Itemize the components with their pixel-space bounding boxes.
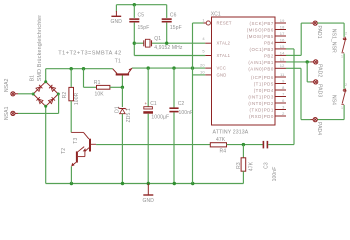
svg-text:XTAL2: XTAL2 — [217, 41, 231, 46]
svg-text:100R: 100R — [74, 92, 80, 105]
svg-text:(SCK)PB7: (SCK)PB7 — [250, 21, 274, 26]
svg-text:(TXD)PD1: (TXD)PD1 — [250, 108, 274, 113]
svg-text:PAD3: PAD3 — [317, 84, 323, 97]
svg-text:NSA1: NSA1 — [4, 106, 10, 120]
svg-text:PAD4: PAD4 — [316, 122, 322, 135]
svg-text:1: 1 — [341, 55, 343, 59]
svg-text:16: 16 — [280, 37, 285, 42]
svg-text:C1: C1 — [150, 101, 157, 107]
svg-text:100nF: 100nF — [272, 167, 278, 182]
svg-text:(MISO)PB6: (MISO)PB6 — [247, 28, 274, 33]
svg-text:(AIN1)PB1: (AIN1)PB1 — [248, 60, 274, 65]
svg-text:NS4: NS4 — [330, 95, 336, 105]
svg-text:10K: 10K — [95, 91, 105, 97]
svg-text:20: 20 — [200, 63, 205, 68]
svg-text:T1+T2+T3=SMBTA 42: T1+T2+T3=SMBTA 42 — [58, 50, 121, 56]
svg-text:C5: C5 — [138, 12, 145, 18]
svg-text:C2: C2 — [178, 101, 185, 107]
svg-text:14: 14 — [280, 50, 285, 55]
svg-text:PB2: PB2 — [264, 54, 274, 59]
svg-text:R3: R3 — [236, 162, 242, 169]
svg-text:T1: T1 — [115, 58, 121, 64]
svg-text:47K: 47K — [248, 161, 254, 171]
svg-text:ZD5.1: ZD5.1 — [126, 108, 132, 122]
svg-text:12: 12 — [280, 63, 285, 68]
svg-text:GND: GND — [217, 72, 227, 77]
svg-text:NS1_NSR: NS1_NSR — [330, 29, 336, 53]
svg-text:18: 18 — [280, 24, 285, 29]
svg-text:XTAL1: XTAL1 — [217, 53, 231, 58]
svg-text:1: 1 — [341, 106, 343, 110]
svg-text:15pF: 15pF — [138, 25, 150, 31]
svg-text:Q1: Q1 — [154, 36, 161, 42]
svg-text:ATTINY 2313A: ATTINY 2313A — [213, 129, 249, 135]
svg-text:1000µF: 1000µF — [151, 115, 169, 121]
svg-text:10: 10 — [200, 69, 205, 74]
svg-text:(MOSI)PB5: (MOSI)PB5 — [247, 34, 274, 39]
svg-text:(AIN0)PB0: (AIN0)PB0 — [248, 67, 274, 72]
svg-text:(OC1)PB3: (OC1)PB3 — [250, 47, 274, 52]
svg-text:SMD Brückengleichrichter: SMD Brückengleichrichter — [37, 15, 43, 82]
svg-text:T2: T2 — [61, 148, 67, 154]
svg-text:+: + — [145, 101, 148, 106]
svg-text:100nF: 100nF — [179, 110, 194, 116]
svg-text:19: 19 — [280, 18, 285, 23]
svg-text:R2: R2 — [62, 92, 68, 99]
svg-text:D1: D1 — [114, 106, 120, 113]
svg-text:(ICP)PD6: (ICP)PD6 — [251, 75, 274, 80]
svg-text:2: 2 — [345, 32, 347, 36]
svg-text:PB4: PB4 — [264, 41, 274, 46]
svg-text:C3: C3 — [264, 162, 270, 169]
svg-text:GND: GND — [143, 198, 155, 204]
svg-text:PAD2: PAD2 — [317, 64, 323, 77]
svg-text:(RXD)PD0: (RXD)PD0 — [249, 114, 274, 119]
svg-text:RESET: RESET — [217, 20, 232, 25]
svg-text:4,9152 MHz: 4,9152 MHz — [154, 45, 183, 51]
svg-text:B1: B1 — [30, 75, 36, 81]
svg-text:11: 11 — [280, 72, 285, 77]
svg-text:R1: R1 — [94, 80, 101, 86]
svg-text:15pF: 15pF — [170, 25, 182, 31]
svg-text:15: 15 — [280, 44, 285, 49]
svg-text:T3: T3 — [73, 138, 79, 144]
svg-text:VCC: VCC — [217, 66, 227, 71]
svg-text:(T1)PD5: (T1)PD5 — [254, 82, 274, 87]
svg-text:17: 17 — [280, 31, 285, 36]
svg-text:PAD1: PAD1 — [316, 26, 322, 39]
svg-text:NSA2: NSA2 — [4, 78, 10, 92]
svg-text:13: 13 — [280, 57, 285, 62]
svg-text:XC1: XC1 — [211, 12, 221, 18]
svg-text:47K: 47K — [216, 137, 226, 143]
svg-text:R4: R4 — [220, 148, 227, 154]
svg-text:(T0)PD4: (T0)PD4 — [254, 88, 274, 93]
svg-text:(INT0)PD2: (INT0)PD2 — [248, 101, 274, 106]
svg-text:C6: C6 — [170, 12, 177, 18]
svg-text:GND: GND — [111, 19, 123, 25]
svg-text:2: 2 — [345, 83, 347, 87]
svg-text:(INT1)PD3: (INT1)PD3 — [248, 95, 274, 100]
